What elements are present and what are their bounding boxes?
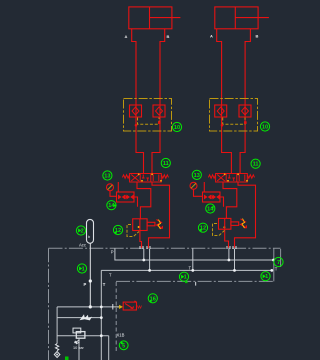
svg-text:Acc: Acc: [79, 242, 86, 247]
svg-text:B: B: [256, 34, 259, 39]
svg-text:1: 1: [82, 267, 85, 273]
svg-text:X1B: X1B: [117, 333, 125, 338]
svg-text:T: T: [103, 282, 106, 287]
svg-text:A: A: [125, 34, 128, 39]
svg-text:T: T: [189, 266, 192, 271]
svg-text:1: 1: [184, 275, 187, 281]
svg-text:P: P: [84, 282, 87, 287]
svg-text:A: A: [210, 34, 213, 39]
svg-text:13: 13: [104, 174, 110, 180]
svg-text:2: 2: [81, 229, 84, 235]
svg-text:B: B: [167, 34, 170, 39]
svg-text:10 bar: 10 bar: [73, 346, 85, 350]
svg-text:10: 10: [174, 125, 180, 131]
svg-text:P: P: [111, 250, 114, 255]
svg-text:1: 1: [265, 274, 268, 280]
svg-text:5: 5: [122, 343, 125, 349]
svg-text:13: 13: [194, 173, 200, 179]
svg-text:W: W: [137, 304, 142, 310]
svg-text:7: 7: [277, 260, 280, 266]
svg-text:11: 11: [163, 161, 169, 167]
svg-text:T: T: [109, 273, 112, 278]
svg-text:10: 10: [262, 125, 268, 131]
svg-text:11: 11: [253, 162, 259, 168]
svg-text:T: T: [275, 267, 278, 272]
